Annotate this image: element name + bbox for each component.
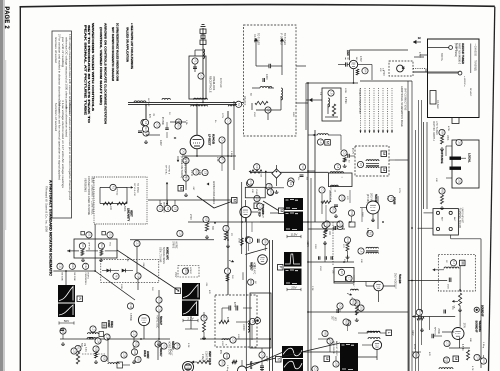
svg-text:C8: C8 bbox=[339, 304, 343, 308]
svg-text:47K: 47K bbox=[428, 352, 430, 356]
resistor cb2 bbox=[100, 249, 103, 255]
svg-text:N: N bbox=[276, 358, 280, 361]
label 270v mid bbox=[189, 214, 192, 220]
svg-text:140V: 140V bbox=[411, 330, 413, 336]
svg-text:10K: 10K bbox=[109, 206, 111, 211]
svg-text:V3: V3 bbox=[163, 344, 167, 348]
svg-text:R9: R9 bbox=[221, 361, 225, 365]
svg-text:C3: C3 bbox=[259, 205, 263, 209]
svg-text:10000: 10000 bbox=[242, 324, 244, 331]
label si x bbox=[445, 260, 447, 263]
callout sif3 bbox=[443, 357, 449, 363]
wire dp stub bbox=[166, 122, 168, 138]
ant term 3 bbox=[436, 227, 439, 230]
callout bl8 bbox=[121, 352, 127, 358]
vert wire x95 bbox=[94, 224, 96, 271]
left border bbox=[19, 6, 21, 371]
cap tuner 1 bbox=[269, 64, 271, 69]
label 30K bbox=[211, 226, 213, 231]
label 140v bbox=[411, 330, 413, 336]
label bl more bbox=[120, 257, 153, 291]
label 270K bbox=[238, 238, 240, 244]
connector box N1 bbox=[77, 296, 83, 302]
callout vh2 bbox=[201, 315, 207, 321]
coil line choke bbox=[203, 49, 205, 59]
wire dp stub2 bbox=[221, 143, 223, 171]
callout lc1 bbox=[141, 119, 147, 125]
label 6U4GB bbox=[208, 134, 216, 146]
callout hfreq bbox=[182, 268, 188, 274]
svg-text:NPO 5%: NPO 5% bbox=[434, 327, 436, 336]
label 45.75 bbox=[351, 148, 353, 154]
note line rotation bbox=[99, 27, 103, 105]
label 130v bbox=[159, 140, 162, 146]
inner agc box bbox=[322, 88, 341, 121]
svg-text:R4: R4 bbox=[176, 344, 180, 348]
svg-text:1M: 1M bbox=[83, 343, 85, 346]
svg-text:TUNER CONNECTIONS: TUNER CONNECTIONS bbox=[358, 88, 360, 114]
svg-text:M: M bbox=[115, 275, 119, 277]
label 6bn6 vals bbox=[386, 188, 400, 201]
label W5 voltage bbox=[59, 319, 74, 325]
arrow pin8 bbox=[177, 156, 180, 162]
power transformer primary coil bbox=[194, 98, 208, 99]
vert wire x246 bbox=[245, 218, 247, 371]
callout bl3 bbox=[155, 341, 161, 347]
phase diode 2 bbox=[122, 269, 133, 273]
wire damper down bbox=[196, 149, 198, 156]
label 340 bbox=[355, 57, 357, 61]
wire sr3 bbox=[483, 355, 485, 358]
svg-text:R6: R6 bbox=[415, 353, 419, 357]
callout if6 bbox=[358, 248, 364, 254]
svg-text:150V: 150V bbox=[174, 272, 176, 278]
wire w5 top stub bbox=[65, 271, 67, 285]
wire 6bn6 bbox=[360, 208, 373, 223]
svg-text:NE 500K: NE 500K bbox=[61, 273, 63, 282]
svg-text:270K: 270K bbox=[238, 238, 240, 244]
svg-text:½6CU7: ½6CU7 bbox=[159, 316, 163, 325]
local distance box bbox=[452, 140, 479, 188]
video det box bbox=[334, 268, 354, 284]
label 170v a bbox=[359, 56, 362, 62]
coil horiz freq bbox=[88, 332, 104, 337]
callout dm2 bbox=[193, 169, 199, 175]
callout bc1 bbox=[259, 352, 265, 358]
coil row h bbox=[313, 134, 329, 137]
callout bl2 bbox=[135, 356, 141, 362]
wire y222 right bbox=[308, 221, 340, 223]
label dp2 bbox=[168, 112, 170, 115]
wire vl frame bbox=[100, 187, 127, 203]
svg-text:N: N bbox=[78, 297, 82, 300]
label vl pot bbox=[116, 188, 119, 196]
svg-text:VERSIONS: VERSIONS bbox=[84, 178, 87, 192]
svg-text:VID: VID bbox=[334, 317, 336, 321]
svg-text:C21: C21 bbox=[158, 307, 162, 312]
label adjust col bbox=[332, 341, 338, 357]
wire y232 seg bbox=[214, 222, 216, 224]
label horiz afc a bbox=[166, 247, 169, 260]
arrow tuner agc bbox=[254, 38, 258, 58]
left page edge line bbox=[5, 60, 7, 230]
svg-text:HORIZ: HORIZ bbox=[175, 241, 177, 249]
label 1M 50K bbox=[80, 343, 85, 348]
wire v5 bbox=[243, 266, 256, 280]
label 6CU7 col1 bbox=[159, 348, 163, 357]
svg-text:4.5MC: 4.5MC bbox=[344, 97, 346, 104]
svg-text:1500: 1500 bbox=[253, 112, 255, 118]
svg-text:C74: C74 bbox=[476, 355, 480, 360]
coil bus 2 bbox=[191, 105, 208, 106]
label onoff2 bbox=[109, 242, 111, 247]
arrow afc tube bbox=[229, 260, 234, 263]
label top more bbox=[253, 88, 346, 118]
svg-text:1 Meg: 1 Meg bbox=[482, 342, 484, 349]
label 170v b bbox=[414, 52, 424, 58]
svg-text:R6: R6 bbox=[264, 240, 268, 244]
svg-text:ARROWS ON CONTROLS INDICATE CL: ARROWS ON CONTROLS INDICATE CLOCKWISE RO… bbox=[104, 23, 108, 124]
wire agc left stub bbox=[306, 98, 322, 102]
callout interlock bbox=[198, 73, 204, 79]
bus tuner left 2 bbox=[426, 122, 428, 209]
svg-text:½6CU7: ½6CU7 bbox=[159, 348, 163, 357]
connector box AC bbox=[460, 260, 466, 266]
svg-text:115V: 115V bbox=[291, 232, 299, 236]
label x mark bbox=[173, 137, 177, 139]
label sound vals bbox=[428, 338, 471, 363]
svg-text:HORIZ CONT: HORIZ CONT bbox=[168, 341, 170, 356]
resistor y349 bbox=[76, 352, 79, 364]
svg-text:C25: C25 bbox=[73, 349, 77, 354]
coil vd bbox=[248, 321, 249, 332]
wire sound sect divider bbox=[408, 111, 410, 371]
svg-text:R5: R5 bbox=[177, 124, 181, 128]
svg-text:R65: R65 bbox=[324, 331, 328, 336]
callout bl4 bbox=[95, 338, 101, 344]
label bs 1000 bbox=[221, 341, 227, 347]
svg-text:C1: C1 bbox=[321, 188, 325, 192]
callout pl3 bbox=[154, 122, 160, 128]
vert dashed box bbox=[215, 295, 257, 347]
if strip wire y281 bbox=[334, 281, 378, 283]
label 400v bbox=[463, 76, 472, 97]
label additional schem bbox=[400, 86, 404, 127]
note item 1a bbox=[68, 34, 71, 114]
label to tuner rf agc bbox=[253, 33, 259, 45]
ant term 1 bbox=[436, 211, 439, 214]
callout sy1 bbox=[246, 180, 252, 186]
cap local 1 bbox=[450, 157, 462, 160]
callout w5r1 bbox=[60, 328, 66, 334]
callout if1 bbox=[322, 222, 328, 228]
svg-text:M: M bbox=[232, 199, 236, 202]
svg-text:6U4GB: 6U4GB bbox=[212, 134, 216, 145]
wire join2 bbox=[242, 104, 243, 106]
if strip wire y312 bbox=[308, 311, 408, 313]
svg-text:10K: 10K bbox=[435, 178, 437, 182]
svg-text:R1: R1 bbox=[81, 244, 85, 248]
callout vif2 bbox=[324, 221, 343, 227]
transformer dashed box bbox=[355, 146, 389, 176]
svg-text:R21: R21 bbox=[135, 342, 139, 347]
svg-text:M: M bbox=[279, 209, 283, 212]
pointer diag W3a bbox=[246, 343, 340, 365]
wire join9 bbox=[303, 351, 340, 353]
callout d1 bbox=[183, 157, 189, 163]
label 100K sy bbox=[244, 237, 246, 243]
svg-text:(YOKE RETURN): (YOKE RETURN) bbox=[180, 156, 183, 178]
if strip wire y262 bbox=[308, 261, 354, 263]
label to pin8 b bbox=[180, 156, 183, 178]
wire right horiz top bbox=[360, 80, 412, 82]
circle M motor bbox=[397, 65, 405, 72]
svg-text:CENTERING: CENTERING bbox=[84, 273, 86, 286]
uhf ant block box bbox=[433, 209, 458, 235]
label 270v bc bbox=[265, 356, 267, 362]
wire tuner leads bbox=[413, 55, 427, 72]
wire join1 bbox=[196, 10, 198, 28]
callout mid2 bbox=[299, 164, 305, 170]
svg-text:HORIZ: HORIZ bbox=[107, 320, 110, 328]
if dashed vline x333 bbox=[332, 222, 334, 265]
svg-text:68K: 68K bbox=[469, 338, 471, 342]
wire bottom stub3 bbox=[62, 334, 64, 339]
svg-text:R61: R61 bbox=[352, 300, 356, 305]
wire senseB bbox=[428, 48, 459, 74]
wire cut tube bbox=[241, 360, 243, 366]
waveform photo W4 bbox=[340, 343, 358, 371]
callout v2nd b bbox=[358, 305, 364, 311]
wire join10 bbox=[358, 356, 377, 358]
svg-text:C12: C12 bbox=[84, 264, 88, 269]
callout bl7 bbox=[101, 355, 107, 361]
svg-text:R3: R3 bbox=[144, 127, 148, 131]
svg-text:4.5MC: 4.5MC bbox=[366, 228, 368, 235]
label 500K vl bbox=[123, 206, 125, 212]
small circ b1 bbox=[449, 46, 453, 50]
cap w5 bbox=[60, 329, 64, 331]
label 45v bbox=[219, 350, 221, 355]
uhf tuner box bbox=[428, 39, 480, 118]
callout be1 bbox=[219, 360, 225, 366]
callout mid1 bbox=[254, 164, 260, 170]
cut tube bottom center bbox=[238, 366, 247, 371]
svg-text:ADJUST VERT: ADJUST VERT bbox=[335, 341, 338, 357]
svg-text:S1: S1 bbox=[87, 233, 91, 237]
svg-text:C81: C81 bbox=[458, 140, 462, 145]
arrow tuner if bbox=[280, 38, 284, 62]
svg-text:HORIZ OSC: HORIZ OSC bbox=[156, 315, 159, 329]
cap if row2 bbox=[325, 256, 326, 260]
svg-text:C5: C5 bbox=[159, 207, 163, 211]
label tuner conn col bbox=[358, 88, 360, 114]
svg-text:270V: 270V bbox=[189, 214, 192, 220]
svg-text:5%: 5% bbox=[297, 177, 299, 180]
callout sync in1 bbox=[247, 179, 253, 185]
note item 1c bbox=[61, 37, 64, 68]
wire 6cb6 bbox=[366, 286, 395, 302]
svg-text:M: M bbox=[382, 168, 386, 171]
svg-text:(4.5 MC): (4.5 MC) bbox=[366, 194, 368, 203]
label 6CU7 col2 bbox=[170, 349, 173, 356]
wire diamond stub bbox=[276, 165, 278, 186]
label to pin9 top bbox=[165, 165, 170, 175]
label hold horiz bbox=[143, 350, 149, 359]
callout ry349 bbox=[75, 345, 81, 351]
label to pix bbox=[350, 297, 352, 305]
svg-text:3300: 3300 bbox=[314, 244, 316, 250]
tuner box notch bbox=[430, 91, 459, 124]
callout y209 r3 bbox=[172, 205, 178, 211]
svg-text:VALUES OR APPLICATION: VALUES OR APPLICATION bbox=[126, 27, 130, 62]
coil if bottom bbox=[367, 331, 380, 332]
callout fh2 bbox=[104, 334, 110, 340]
resistor si bbox=[459, 293, 462, 306]
callout v2nd a bbox=[350, 299, 356, 305]
wire ant leads bbox=[418, 213, 437, 228]
wire sound mesh bbox=[358, 333, 386, 360]
svg-text:1500: 1500 bbox=[447, 284, 449, 290]
svg-text:S1: S1 bbox=[237, 103, 241, 107]
label uhf tuner c bbox=[454, 43, 457, 57]
wire sy mesh bbox=[248, 222, 265, 251]
callout ho s bbox=[131, 349, 137, 355]
svg-text:.0047: .0047 bbox=[142, 262, 144, 268]
wire join4 bbox=[296, 102, 308, 104]
video takeoff box bbox=[328, 164, 352, 193]
svg-text:270V: 270V bbox=[398, 188, 400, 194]
label sound if a bbox=[478, 321, 482, 333]
svg-text:C6: C6 bbox=[174, 207, 178, 211]
label ant a bbox=[441, 217, 457, 222]
svg-text:C53: C53 bbox=[339, 222, 343, 227]
callout snd1 bbox=[327, 338, 333, 344]
vert line x311 bbox=[310, 178, 312, 371]
svg-text:©Howard W. Sams & Co., Inc. 19: ©Howard W. Sams & Co., Inc. 1958 bbox=[45, 186, 49, 233]
svg-text:R52: R52 bbox=[326, 222, 330, 227]
svg-text:R30: R30 bbox=[225, 354, 229, 359]
svg-text:HOLD: HOLD bbox=[143, 350, 146, 357]
svg-text:1 Meg: 1 Meg bbox=[230, 151, 232, 158]
label distance bbox=[440, 150, 444, 164]
top border bbox=[20, 5, 495, 7]
wire v4 leads bbox=[246, 200, 259, 222]
callout agc1 bbox=[362, 68, 368, 74]
svg-text:10K: 10K bbox=[360, 259, 362, 263]
svg-text:C20: C20 bbox=[178, 231, 182, 236]
waveform photo W1b bbox=[284, 212, 303, 232]
cap dp bbox=[165, 128, 169, 129]
callout if7 bbox=[346, 275, 352, 281]
svg-text:R4: R4 bbox=[364, 69, 368, 73]
callout x159 b bbox=[156, 306, 162, 312]
bus right 2 bbox=[411, 81, 413, 371]
ant term 4 bbox=[449, 227, 452, 230]
waveform photo W1a bbox=[284, 198, 303, 210]
label 6BN6 b bbox=[389, 197, 391, 203]
cap bc1 bbox=[260, 366, 264, 368]
svg-text:C41: C41 bbox=[182, 149, 186, 154]
cap sy bbox=[258, 239, 260, 243]
wire if join y281 bbox=[354, 275, 366, 286]
callout ho tube extra bbox=[127, 303, 133, 309]
svg-text:R1: R1 bbox=[112, 186, 116, 190]
callout snd2 bbox=[322, 330, 328, 336]
svg-text:X: X bbox=[173, 137, 177, 139]
coil T1b bbox=[366, 167, 379, 168]
note item 5 bbox=[58, 100, 61, 181]
label dp1 bbox=[147, 98, 150, 107]
svg-text:1000: 1000 bbox=[265, 74, 268, 80]
wire y271 bbox=[53, 270, 95, 272]
right border bbox=[489, 7, 495, 371]
wire left cluster v bbox=[145, 105, 147, 135]
svg-text:50V: 50V bbox=[64, 319, 70, 323]
label boost b1 bbox=[440, 53, 442, 62]
label uhf more bbox=[435, 126, 449, 182]
svg-text:● SEE PARTS LIST FOR ALTERNATE: ● SEE PARTS LIST FOR ALTERNATE bbox=[130, 23, 134, 69]
svg-text:DISTANCE: DISTANCE bbox=[440, 150, 444, 164]
wire bc1 bbox=[261, 348, 263, 366]
scan edge shadow bbox=[0, 0, 5, 371]
wire si feed bbox=[408, 280, 447, 282]
label sound if c bbox=[474, 305, 483, 317]
cap if row3 bbox=[331, 256, 332, 260]
svg-text:⇤HORIZ⇥: ⇤HORIZ⇥ bbox=[463, 76, 466, 87]
coil det out bbox=[351, 289, 359, 290]
svg-text:OFF ON: OFF ON bbox=[88, 242, 90, 250]
phase diode dashed box bbox=[101, 260, 159, 283]
svg-text:PART NO. 94D87-1: PART NO. 94D87-1 bbox=[432, 121, 435, 142]
label 4.5mc bbox=[461, 344, 463, 351]
label 0000 vd bbox=[242, 324, 244, 331]
callout y222b bbox=[223, 225, 229, 231]
label 10K vl bbox=[109, 206, 111, 211]
coil if double a bbox=[366, 247, 379, 248]
svg-text:117V AC: 117V AC bbox=[147, 98, 150, 107]
svg-text:8.2K: 8.2K bbox=[216, 157, 218, 162]
resistor if c bbox=[355, 306, 358, 315]
wire join8 bbox=[270, 338, 340, 340]
arrow si left bbox=[433, 268, 445, 271]
label b out bbox=[456, 43, 459, 52]
bottom box left bbox=[117, 362, 123, 368]
cap sif bbox=[432, 334, 434, 339]
resistor y222b bbox=[224, 232, 227, 240]
callout y232 bbox=[177, 230, 183, 236]
wire join11 bbox=[395, 159, 408, 161]
label 1K bbox=[230, 233, 232, 236]
label 2Meg bbox=[201, 354, 203, 361]
svg-text:C4: C4 bbox=[346, 238, 350, 242]
cap if c bbox=[337, 309, 338, 313]
svg-text:10K: 10K bbox=[251, 189, 253, 193]
svg-text:270V: 270V bbox=[221, 113, 223, 119]
svg-text:1000: 1000 bbox=[237, 334, 239, 340]
wire ant bottom bbox=[451, 235, 481, 239]
vert wire x228 bbox=[227, 111, 229, 295]
connector box M3 bbox=[325, 140, 331, 146]
waveform photo W6b bbox=[182, 301, 199, 317]
label local bbox=[468, 153, 472, 163]
label uhf tuner a bbox=[461, 43, 465, 64]
label x point bbox=[413, 37, 421, 44]
cap local 2 bbox=[450, 167, 462, 170]
label vif vals bbox=[329, 186, 363, 218]
svg-text:L5MC: L5MC bbox=[437, 328, 439, 334]
tube 6CB6 2nd bbox=[374, 281, 384, 291]
